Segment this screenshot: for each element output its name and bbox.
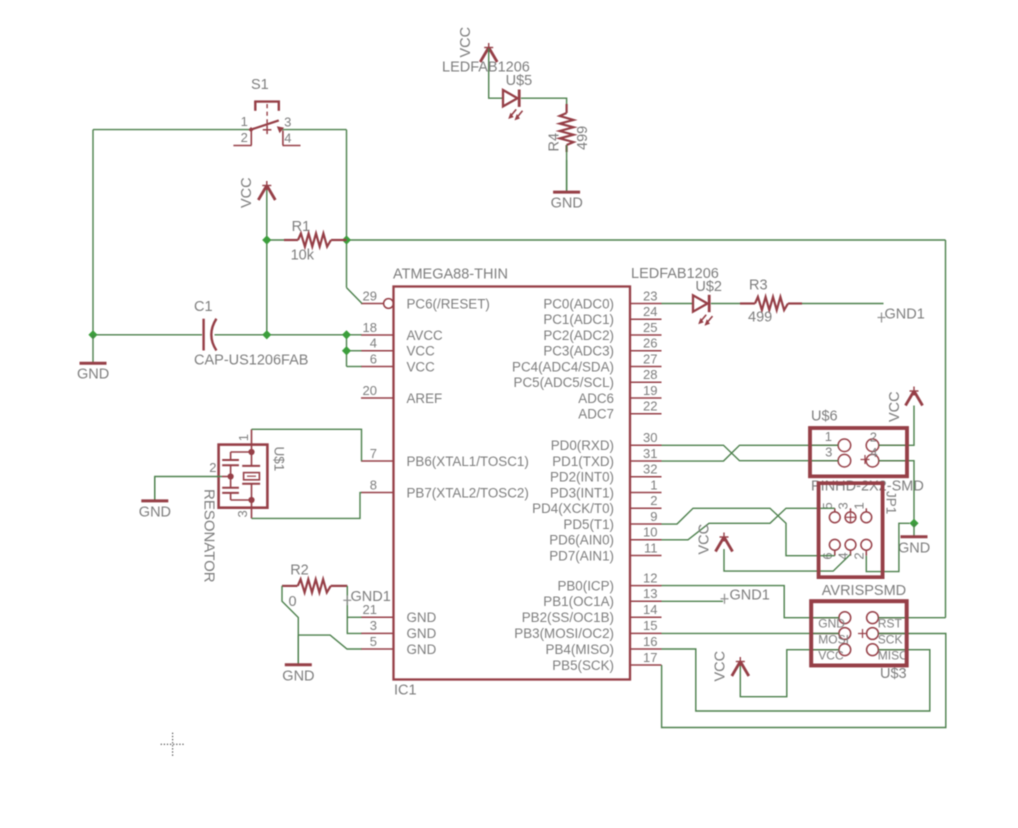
svg-text:PD7(AIN1): PD7(AIN1) [549,548,614,563]
supply GND1 near pin 13 [721,587,770,604]
svg-text:C1: C1 [194,299,213,315]
wire U$6 pin 2 to VCC [879,406,914,446]
capacitor C1 CAP-US1206FAB [194,299,308,369]
wire U$3 MISO loop to pin 16 [662,649,930,711]
wire R1 left lead-in [267,239,284,241]
wire U$3 SCK loop to pin 17 [662,634,946,728]
wire LED U$2 to R3 [711,303,740,305]
svg-text:14: 14 [643,602,657,617]
wire R2 left to GND net [282,586,298,635]
pin 1 PD3(INT1) [550,477,662,500]
supply GND1 right of R3 [878,307,925,323]
svg-text:GND: GND [407,642,437,657]
U$6 pin 4 [866,445,907,467]
pin 28 PC5(ADC5/SCL) [514,367,662,390]
pin 29 PC6(/RESET) with bubble [361,288,490,311]
wire right rail down to R1 row [346,130,348,240]
svg-text:18: 18 [363,320,377,335]
svg-text:12: 12 [643,570,657,585]
JP1 pin 4 [836,539,856,559]
pin 3 GND [361,618,437,641]
pin 19 ADC6 [578,383,661,406]
svg-text:3: 3 [370,618,377,633]
svg-text:IC1: IC1 [394,683,417,699]
U$6 pin 1 [810,429,851,452]
wire to pin 4 [347,350,362,352]
wire right side vertical to RST [945,240,947,618]
JP1 pin 5 [820,502,840,522]
U$6 pin 3 [810,445,851,467]
svg-text:PD4(XCK/T0): PD4(XCK/T0) [532,501,614,516]
svg-text:13: 13 [643,586,657,601]
svg-text:20: 20 [363,383,377,398]
svg-text:PB2(SS/OC1B): PB2(SS/OC1B) [522,610,614,625]
svg-text:PC0(ADC0): PC0(ADC0) [543,296,614,311]
connector U$3 body outline top layer [811,601,907,665]
wire VCC vertical to C1 row [266,188,268,335]
connector JP1 body [819,483,883,577]
junction left rail C1 [88,330,97,339]
pin 5 GND [361,634,437,657]
pin 21 GND [361,602,437,625]
svg-text:PC2(ADC2): PC2(ADC2) [543,328,614,343]
wire U$3 RST to reset rail [878,617,945,619]
svg-text:11: 11 [644,540,658,555]
U$3 pin MISO [867,644,909,663]
svg-text:1: 1 [241,114,248,129]
wire left rail vertical [92,130,94,335]
wire GND net down [297,635,299,664]
svg-text:PINHD-2X2-SMD: PINHD-2X2-SMD [811,479,924,495]
pin 23 PC0(ADC0) [543,288,661,311]
svg-text:PD5(T1): PD5(T1) [563,517,614,532]
svg-text:16: 16 [643,634,657,649]
svg-text:R4: R4 [547,133,563,152]
pin 26 PC3(ADC3) [543,336,661,359]
wire pin 10 to JP1 pin 5 (crossover) [662,508,835,540]
svg-text:25: 25 [643,320,657,335]
svg-text:0: 0 [289,594,297,610]
pin 30 PD0(RXD) [551,430,662,453]
wire resonator pin 2 to GND [155,477,222,501]
resonator internals [222,429,260,518]
wire pin 23 to LED U$2 [662,303,694,305]
svg-text:VCC: VCC [407,344,436,359]
svg-text:24: 24 [643,304,657,319]
JP1 pin 2 [851,539,871,559]
svg-text:2: 2 [650,493,657,508]
svg-text:GND: GND [898,540,930,556]
svg-text:3: 3 [825,445,832,460]
resistor R4 499 [547,104,592,152]
pin 16 PB4(MISO) [546,634,662,657]
wire R4 to GND [566,145,568,192]
sheet origin marker [161,733,185,756]
svg-text:PC6(/RESET): PC6(/RESET) [407,296,490,311]
svg-text:2: 2 [209,460,216,475]
wire U$6 pin 4 to GND junction [879,461,914,524]
svg-text:ADC6: ADC6 [578,391,614,406]
pin 6 VCC [361,351,435,374]
ground left rail [77,335,109,383]
svg-text:3: 3 [284,115,291,130]
wire R3 to GND1 [802,303,884,305]
wire pin 15 to U$3 MOSI [662,632,839,634]
wire VCC rail down pins 18/4/6 [346,335,348,367]
svg-text:2: 2 [870,429,877,444]
svg-text:GND1: GND1 [351,589,391,605]
pin 27 PC4(ADC4/SDA) [512,351,661,374]
svg-text:PD0(RXD): PD0(RXD) [551,438,614,453]
U$6 pin 2 [866,429,907,451]
wire branch to pin 21 [347,616,361,618]
wire JP1 pin 2 to GND node [866,523,909,571]
svg-text:PD1(TXD): PD1(TXD) [552,454,614,469]
svg-text:VCC: VCC [887,391,903,422]
junction rail pin4 [342,346,351,355]
svg-text:JP1: JP1 [884,491,899,514]
U$3 pin RST [867,612,907,631]
supply VCC near U$3 [713,651,749,682]
svg-text:PC3(ADC3): PC3(ADC3) [543,344,614,359]
svg-text:26: 26 [643,336,657,351]
svg-text:PB4(MISO): PB4(MISO) [546,642,614,657]
svg-text:29: 29 [363,288,377,303]
pin 9 PD5(T1) [563,509,661,532]
wire GND net to pin 5 [298,635,361,649]
svg-text:4: 4 [284,131,291,146]
svg-text:27: 27 [643,351,657,366]
junction rail pin18 [342,330,351,339]
svg-text:8: 8 [370,477,377,492]
svg-text:PD3(INT1): PD3(INT1) [550,485,614,500]
pin 22 ADC7 [578,399,661,422]
svg-text:499: 499 [575,126,591,150]
pin 25 PC2(ADC2) [543,320,661,343]
U$6 origin cross [861,455,870,464]
svg-text:AREF: AREF [407,391,443,406]
svg-text:RST: RST [878,617,903,631]
U$3 pin MOSI [811,628,850,647]
svg-text:VCC: VCC [697,524,713,555]
svg-text:PD6(AIN0): PD6(AIN0) [549,533,614,548]
U$3 pin GND [811,612,850,631]
pin 12 PB0(ICP) [557,570,661,593]
svg-text:1: 1 [851,502,866,509]
pin 14 PB2(SS/OC1B) [522,602,662,625]
svg-text:VCC: VCC [818,649,844,663]
wire rail R1 row to reset diagonal [346,240,348,288]
U$3 pin VCC [811,644,850,663]
wire S1 right to rail [281,129,347,131]
svg-text:PC5(ADC5/SCL): PC5(ADC5/SCL) [514,375,614,390]
junction R1 left [262,235,271,244]
resonator U$1 body [219,445,268,508]
svg-text:1: 1 [825,429,832,444]
ground right of JP1 [898,523,930,556]
IC U1 ATMEGA88-THIN body [394,287,631,680]
svg-text:9: 9 [650,509,657,524]
ground below R2 [282,635,314,684]
connector JP1 body outline top layer [819,483,883,577]
wire VCC loop to U$3 VCC [740,650,839,697]
junction R1 right [342,235,351,244]
svg-text:1: 1 [236,434,251,441]
ground under R4 [551,160,583,212]
connector U$6 body outline top layer [810,428,907,476]
svg-text:RESONATOR: RESONATOR [201,489,218,583]
svg-text:GND: GND [77,367,109,383]
svg-text:5: 5 [370,634,377,649]
pin 20 AREF [361,383,442,406]
resistor R1 10k [284,219,347,264]
pin 4 VCC [361,336,435,359]
wire pin 13 to GND1 [662,600,724,602]
svg-text:10: 10 [643,525,657,540]
svg-text:U$5: U$5 [506,73,533,89]
svg-text:2: 2 [851,552,866,559]
svg-text:30: 30 [643,430,657,445]
svg-text:31: 31 [643,446,657,461]
resistor R2 0 [282,563,347,611]
svg-text:VCC: VCC [239,177,255,208]
JP1 pin 6 [820,539,840,559]
U$3 origin cross [858,629,867,638]
svg-text:GND: GND [407,626,437,641]
svg-text:PC4(ADC4/SDA): PC4(ADC4/SDA) [512,359,614,374]
wire S1 left to left rail [93,129,251,131]
svg-text:VCC: VCC [407,359,436,374]
svg-text:GND: GND [282,668,314,684]
svg-text:2: 2 [241,130,248,145]
svg-text:499: 499 [748,310,772,326]
junction GND node right [909,519,918,528]
wire VCC to JP1 pin 4 [724,549,851,571]
wire pin 30 to U$6 pin 3 (crossover) [662,445,839,460]
pin 13 PB1(OC1A) [543,586,661,609]
junction VCC C1 row [262,330,271,339]
svg-text:32: 32 [643,462,657,477]
pin 17 PB5(SCK) [552,650,661,673]
pin 8 PB7(XTAL2/TOSC2) [361,477,529,500]
connector U$3 AVRISPSMD body [811,601,907,665]
svg-text:R3: R3 [749,278,768,294]
ground left of resonator [139,477,171,521]
pin 2 PD4(XCK/T0) [532,493,661,516]
pin 18 AVCC [361,320,443,343]
connector U$6 body [810,428,907,476]
switch S1 [233,101,300,145]
supply VCC above U$6 [887,387,923,423]
wire C1 left [93,334,202,336]
wire resonator pin 3 to pin 8 [252,493,362,519]
svg-text:10k: 10k [291,248,315,264]
svg-text:U$1: U$1 [272,447,287,472]
LED U$5 [503,90,523,121]
JP1 pin 3 [836,502,856,522]
svg-text:ADC7: ADC7 [578,407,614,422]
JP1 pin 1 [851,502,871,522]
svg-text:AVCC: AVCC [407,328,444,343]
svg-text:U$6: U$6 [811,409,838,425]
svg-text:PB5(SCK): PB5(SCK) [552,658,614,673]
svg-text:AVRISPSMD: AVRISPSMD [822,583,906,599]
svg-text:GND: GND [139,504,171,520]
pin 15 PB3(MOSI/OC2) [514,618,661,641]
svg-text:23: 23 [643,288,657,303]
svg-text:SCK: SCK [878,633,903,647]
svg-text:S1: S1 [251,77,269,93]
svg-text:17: 17 [643,650,657,665]
pin 7 PB6(XTAL1/TOSC1) [361,446,529,469]
wire pin 31 to U$6 pin 1 (crossover) [662,445,839,461]
svg-text:U$2: U$2 [695,279,722,295]
wire VCC to LED U$5 [489,49,503,99]
pin 10 PD6(AIN0) [549,525,661,548]
wire resonator pin 1 to pin 7 [252,429,362,461]
svg-text:PB6(XTAL1/TOSC1): PB6(XTAL1/TOSC1) [407,454,529,469]
svg-text:PB7(XTAL2/TOSC2): PB7(XTAL2/TOSC2) [407,485,529,500]
svg-text:R2: R2 [290,563,309,579]
supply VCC U$5 [458,27,497,62]
wire LED U$5 to R4 [521,98,567,113]
wire reset row to right side [347,239,946,241]
U$3 pin SCK [867,628,907,647]
svg-text:28: 28 [643,367,657,382]
svg-text:6: 6 [370,351,377,366]
svg-text:PB1(OC1A): PB1(OC1A) [543,594,614,609]
svg-text:U$3: U$3 [880,666,907,682]
svg-text:CAP-US1206FAB: CAP-US1206FAB [194,353,308,369]
wire R2 right to pins 21/3 [347,586,361,634]
svg-text:PB0(ICP): PB0(ICP) [557,578,614,593]
svg-text:ATMEGA88-THIN: ATMEGA88-THIN [393,267,508,283]
pin 11 PD7(AIN1) [549,540,661,563]
svg-text:VCC: VCC [458,27,474,58]
svg-text:PC1(ADC1): PC1(ADC1) [543,312,614,327]
svg-text:GND1: GND1 [885,307,925,323]
svg-text:22: 22 [643,399,657,414]
svg-text:3: 3 [235,510,250,517]
svg-text:19: 19 [643,383,657,398]
resistor R3 499 [740,278,802,326]
pin 31 PD1(TXD) [552,446,661,469]
wire pin 12 to U$3 GND [662,586,839,618]
svg-text:4: 4 [370,336,377,351]
LED U$2 [693,295,713,326]
wire pin 9 to JP1 pin 6 (crossover) [662,508,835,555]
svg-text:4: 4 [870,445,877,460]
svg-text:GND: GND [551,196,583,212]
pin 24 PC1(ADC1) [543,304,661,327]
supply VCC near JP1 [697,524,733,555]
JP1 origin cross [846,513,855,522]
svg-text:GND1: GND1 [730,587,770,603]
svg-text:1: 1 [650,477,657,492]
svg-text:VCC: VCC [713,651,729,682]
svg-text:PB3(MOSI/OC2): PB3(MOSI/OC2) [514,626,614,641]
wire C1 right to pin 18 [215,334,362,336]
svg-text:GND: GND [407,610,437,625]
pin 32 PD2(INT0) [550,462,662,485]
svg-text:3: 3 [836,502,851,509]
supply GND1 near R2 [343,589,390,605]
svg-text:MISO: MISO [878,649,909,663]
svg-text:7: 7 [370,446,377,461]
svg-text:PD2(INT0): PD2(INT0) [550,470,614,485]
svg-text:R1: R1 [292,219,311,235]
wire diagonal to pin 29 [347,288,363,304]
svg-text:15: 15 [643,618,657,633]
supply VCC near R1 [239,177,275,208]
wire to pin 6 [347,366,362,368]
